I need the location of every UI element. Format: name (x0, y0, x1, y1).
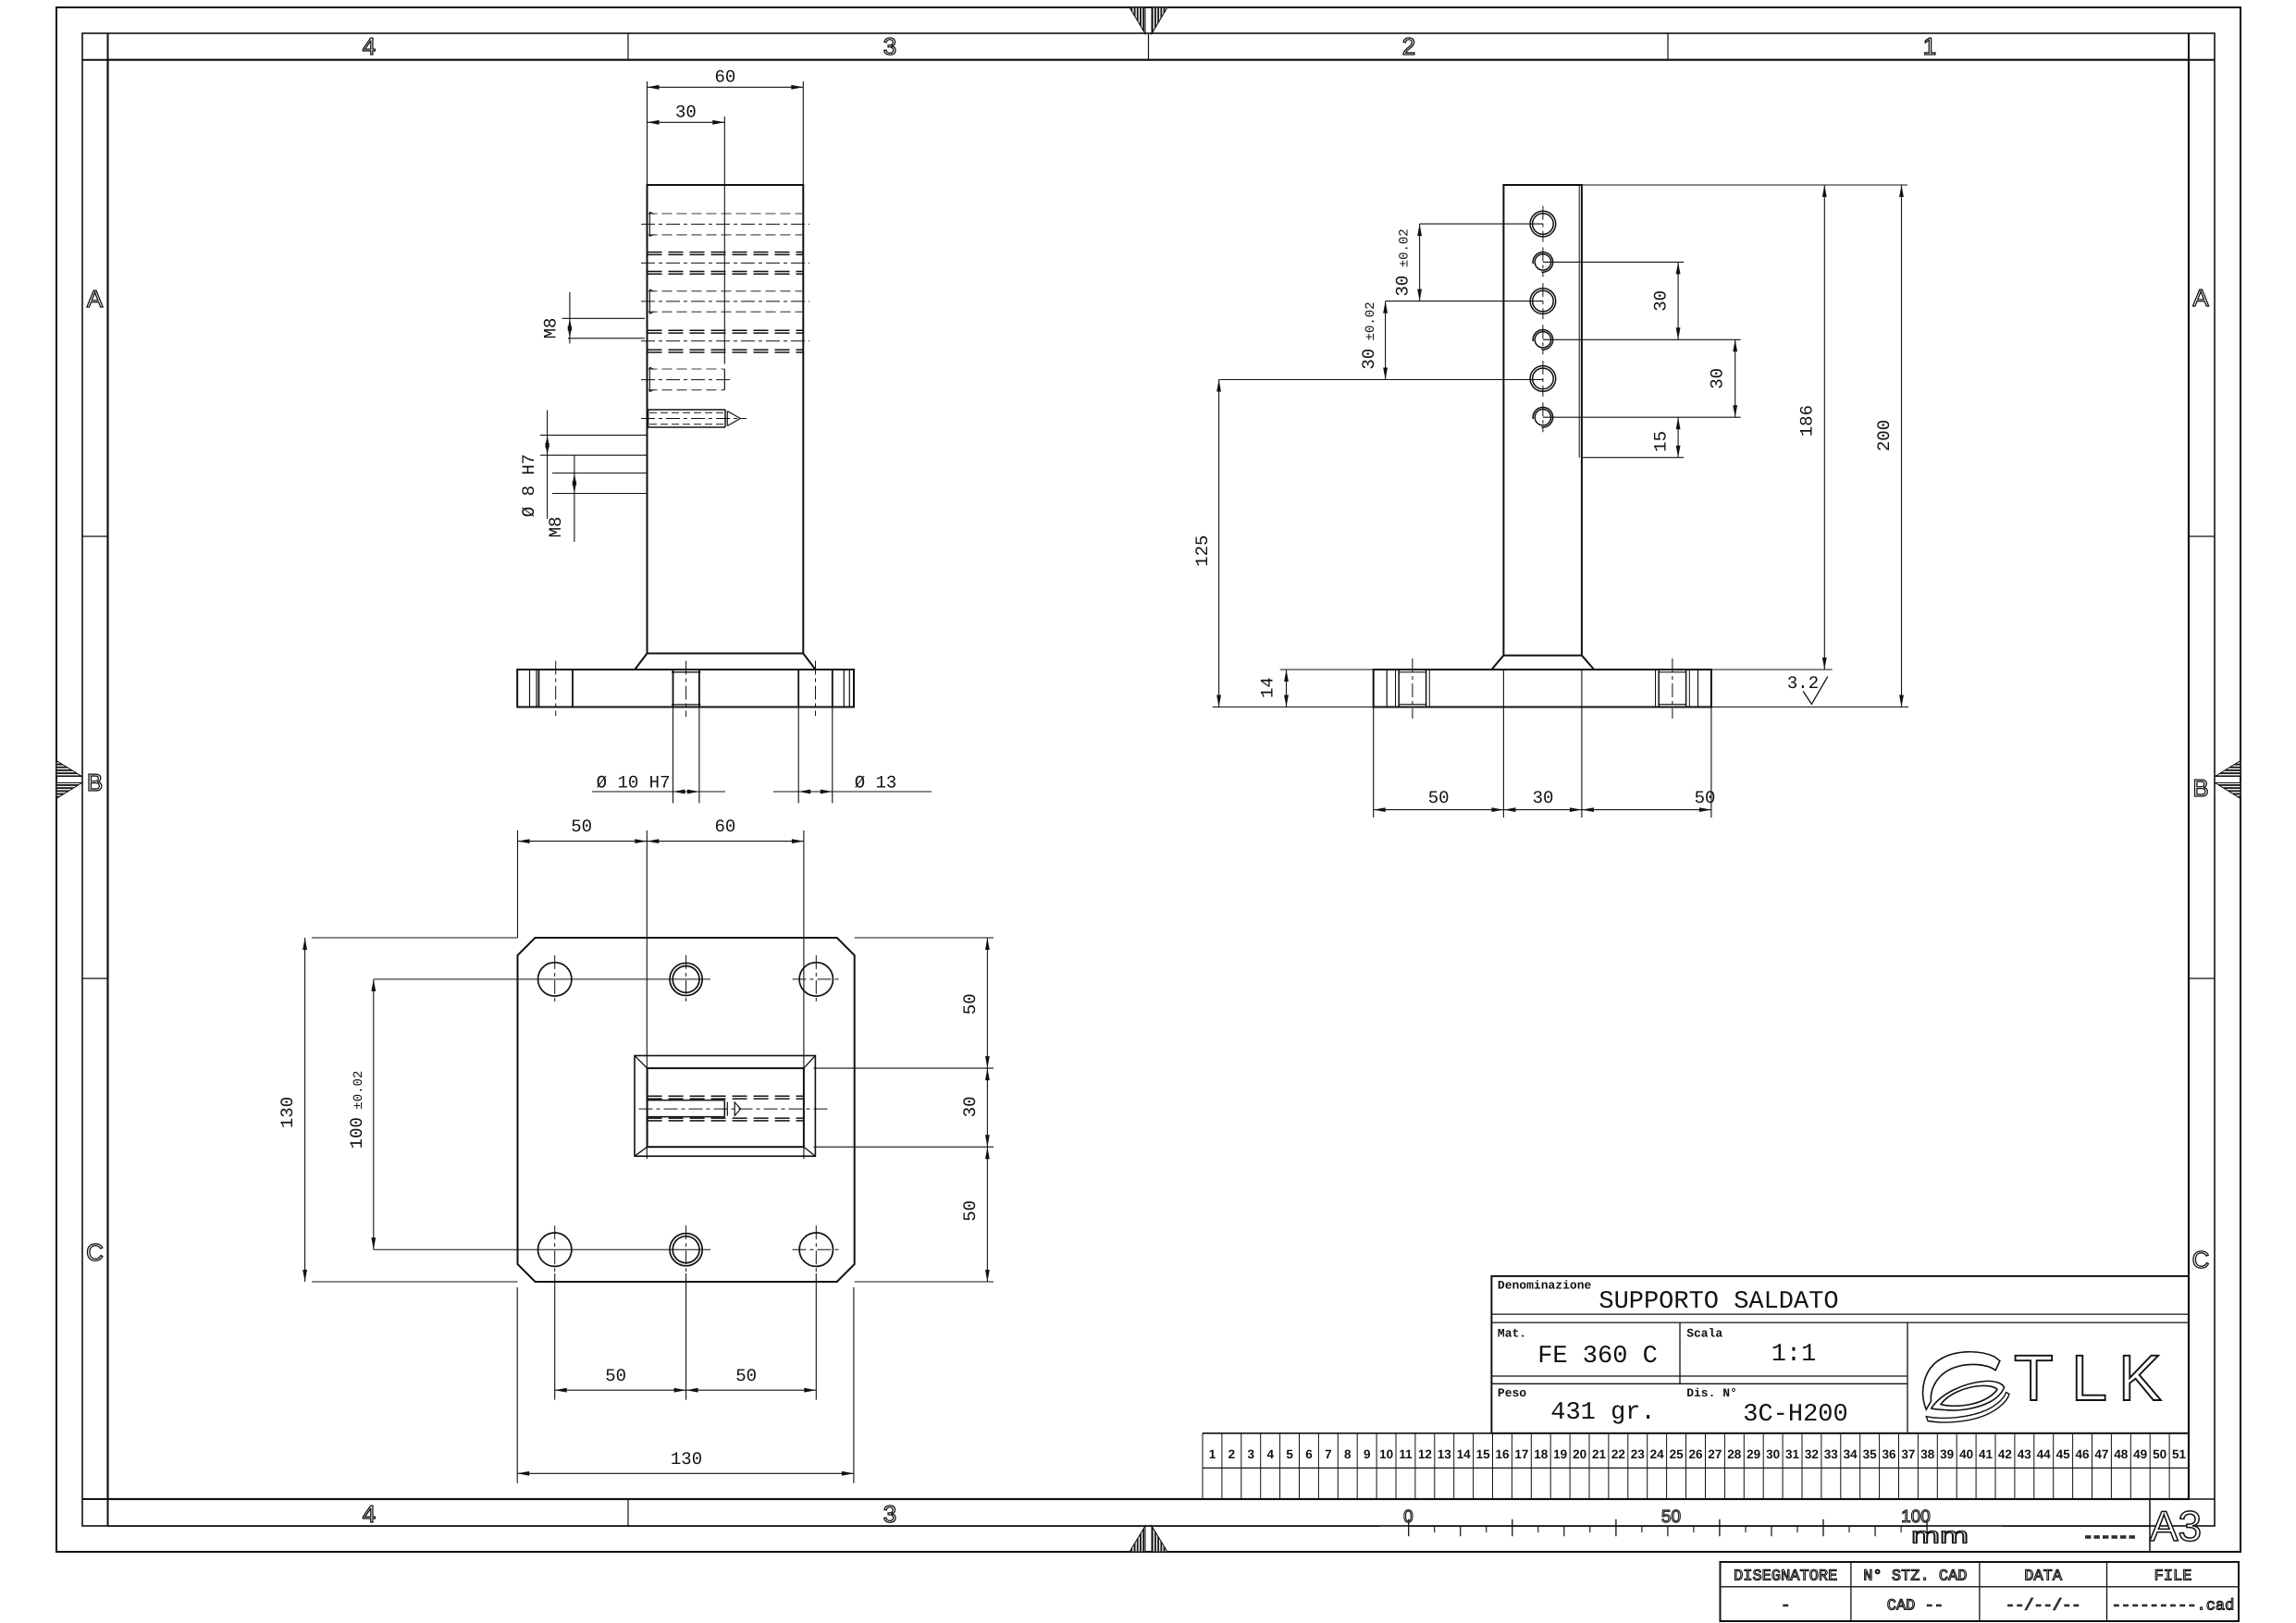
svg-text:C: C (2192, 1246, 2210, 1273)
dimension 186 (1583, 185, 1907, 670)
revision header DATA (2024, 1568, 2063, 1586)
svg-text:A3: A3 (2150, 1502, 2202, 1550)
A3 format box (2150, 1499, 2215, 1552)
title value FE 360 C (1537, 1343, 1658, 1371)
svg-text:30: 30 (1533, 788, 1554, 808)
title label Denominazione (1498, 1278, 1592, 1292)
svg-text:3: 3 (1248, 1447, 1255, 1461)
revision header FILE (2154, 1568, 2192, 1586)
svg-text:mm: mm (1911, 1524, 1969, 1549)
svg-text:50: 50 (960, 1200, 981, 1222)
label Ø 8 H7 with leaders (519, 411, 647, 519)
svg-text:50: 50 (2153, 1447, 2166, 1461)
svg-text:Mat.: Mat. (1498, 1327, 1526, 1341)
svg-text:1:1: 1:1 (1771, 1341, 1817, 1369)
svg-text:6: 6 (1305, 1447, 1313, 1461)
centering mark left (56, 761, 82, 799)
revision value CAD -- (1887, 1598, 1944, 1616)
side flange bolt hole left (Ø13/Ø10) (1396, 670, 1430, 707)
svg-text:130: 130 (671, 1449, 702, 1469)
hole H1 centerline (641, 223, 809, 225)
svg-text:N° STZ. CAD: N° STZ. CAD (1863, 1568, 1967, 1586)
svg-text:38: 38 (1920, 1447, 1935, 1461)
svg-text:37: 37 (1901, 1447, 1915, 1461)
svg-text:33: 33 (1824, 1447, 1839, 1461)
scale ruler labels (1403, 1507, 1931, 1527)
title block frame (1491, 1276, 2189, 1433)
plan dowel hole Ø10 H7 at (742,1351) (670, 1234, 702, 1266)
svg-text:16: 16 (1495, 1447, 1510, 1461)
svg-text:50: 50 (571, 817, 592, 837)
svg-text:25: 25 (1670, 1447, 1685, 1461)
svg-text:12: 12 (1418, 1447, 1432, 1461)
front flange hole Ø13 right (798, 670, 833, 707)
svg-text:Denominazione: Denominazione (1498, 1278, 1592, 1292)
plan bolt hole Ø13 at (600,1059) (538, 955, 572, 1003)
svg-text:48: 48 (2114, 1447, 2129, 1461)
svg-text:K: K (2118, 1342, 2162, 1414)
svg-text:44: 44 (2037, 1447, 2052, 1461)
zone labels bottom 4 3 (363, 1500, 896, 1528)
zone band column dividers (628, 33, 1668, 1526)
A3 label (2150, 1502, 2202, 1550)
svg-text:L: L (2071, 1342, 2107, 1414)
dimension 200 (1711, 185, 1908, 707)
set screw G1 body (648, 410, 728, 427)
dimension 50 30 50 (plan right) (814, 938, 994, 1282)
svg-text:A: A (87, 285, 104, 313)
hole H4 centerline (641, 340, 809, 342)
plan set screw thread hidden lines (648, 1096, 804, 1121)
dimension 14 (1258, 670, 1374, 707)
revision header DISEGNATORE (1734, 1568, 1837, 1586)
svg-text:200: 200 (1874, 420, 1895, 451)
svg-text:431 gr.: 431 gr. (1550, 1399, 1655, 1427)
svg-text:Ø 13: Ø 13 (855, 773, 897, 793)
front view weld fillet left (635, 654, 647, 670)
dimension 15 (1650, 417, 1680, 458)
svg-text:45: 45 (2056, 1447, 2071, 1461)
svg-text:SUPPORTO SALDATO: SUPPORTO SALDATO (1599, 1288, 1838, 1316)
svg-text:46: 46 (2075, 1447, 2090, 1461)
front flange hole Ø13 left centerline (555, 661, 557, 717)
svg-text:2: 2 (1402, 32, 1415, 60)
svg-text:41: 41 (1979, 1447, 1994, 1461)
svg-text:50: 50 (605, 1366, 626, 1386)
zone band bottom line segments (108, 1525, 2151, 1527)
hole H3 hidden lines (Ø8 through) (648, 289, 804, 314)
front flange left end chamfer lines (530, 670, 537, 707)
svg-text:130: 130 (278, 1097, 298, 1128)
hole H1 hidden lines (Ø8 through) (648, 212, 804, 237)
centering mark top (1129, 7, 1167, 34)
dimension 130 (plan left) (278, 938, 518, 1282)
title label Mat. (1498, 1327, 1526, 1341)
side hole S2 (M8 tapped) (1533, 247, 1553, 277)
svg-text:31: 31 (1785, 1447, 1800, 1461)
dimension 30 right (holes 2-4) (1650, 262, 1680, 339)
revision table dividers (1721, 1562, 2240, 1621)
svg-text:10: 10 (1379, 1447, 1393, 1461)
side view column body (1503, 185, 1582, 656)
zone labels left A B C (86, 285, 104, 1266)
svg-text:40: 40 (1959, 1447, 1973, 1461)
side flange bolt hole right centerline (1672, 658, 1673, 719)
svg-text:14: 14 (1258, 677, 1278, 698)
dimension 30 ±0.02 (holes 1-3) (1393, 224, 1423, 301)
dimension Ø 13 (773, 707, 932, 804)
svg-text:42: 42 (1998, 1447, 2012, 1461)
plan set screw cone point (734, 1102, 740, 1115)
svg-text:15: 15 (1650, 431, 1671, 452)
numbered filing strip digits 1-51 (1209, 1447, 2187, 1461)
title value 1:1 (1771, 1341, 1817, 1369)
svg-text:30: 30 (1650, 290, 1671, 312)
svg-text:50: 50 (735, 1366, 757, 1386)
scale ruler (1409, 1519, 1927, 1536)
svg-text:51: 51 (2172, 1447, 2187, 1461)
plan slot inner rect (column 60x30) (648, 1068, 804, 1147)
svg-text:11: 11 (1399, 1447, 1413, 1461)
svg-text:3: 3 (883, 1500, 896, 1528)
plan slot corner chamfer lines (635, 1056, 815, 1157)
title label Scala (1686, 1327, 1722, 1341)
title label Dis. N° (1686, 1386, 1737, 1400)
svg-text:0: 0 (1403, 1507, 1413, 1527)
svg-text:36: 36 (1882, 1447, 1896, 1461)
TLK logo text (2014, 1342, 2162, 1414)
svg-text:C: C (86, 1238, 104, 1266)
svg-text:4: 4 (1266, 1447, 1274, 1461)
side view flange (1374, 670, 1711, 707)
front view flange (517, 670, 854, 707)
svg-text:49: 49 (2133, 1447, 2147, 1461)
revision value dash (1781, 1598, 1790, 1616)
plan vertical crosshair Ø10 top (685, 955, 687, 1003)
svg-text:50: 50 (1695, 788, 1716, 808)
plan set screw centerline (639, 1108, 828, 1110)
svg-text:FILE: FILE (2154, 1568, 2192, 1586)
front flange hole Ø10 center (672, 670, 700, 707)
plan bolt hole Ø13 at (600,1351) (538, 1225, 572, 1273)
svg-text:30: 30 (960, 1096, 981, 1117)
svg-text:8: 8 (1344, 1447, 1352, 1461)
centering mark right (2216, 761, 2241, 799)
label M8 upper with leaders (541, 292, 646, 344)
svg-text:7: 7 (1325, 1447, 1332, 1461)
svg-text:39: 39 (1940, 1447, 1954, 1461)
side flange bolt hole right (Ø13/Ø10) (1656, 670, 1690, 707)
svg-text:B: B (2192, 774, 2208, 802)
plan view plate outline (518, 938, 855, 1282)
svg-text:---------.cad: ---------.cad (2112, 1598, 2235, 1616)
dimension 60 (front top) (648, 68, 804, 186)
revision table frame (1721, 1562, 2240, 1621)
svg-text:17: 17 (1514, 1447, 1528, 1461)
svg-text:13: 13 (1438, 1447, 1452, 1461)
svg-text:1: 1 (1923, 32, 1936, 60)
side hole S3 (Ø8 H7 countersunk) (1530, 283, 1556, 319)
svg-text:35: 35 (1863, 1447, 1878, 1461)
side flange end chamfer lines (1387, 670, 1697, 707)
svg-text:4: 4 (363, 32, 376, 60)
hole H5 centerline (641, 379, 732, 381)
svg-text:43: 43 (2018, 1447, 2032, 1461)
title label Peso (1498, 1386, 1526, 1400)
plan bolt hole Ø13 at (882,1351) (799, 1225, 833, 1273)
dimension 30 right (holes 4-6) (1707, 339, 1737, 417)
svg-text:18: 18 (1534, 1447, 1549, 1461)
svg-text:60: 60 (714, 68, 735, 88)
svg-text:Dis. N°: Dis. N° (1686, 1386, 1737, 1400)
svg-text:28: 28 (1727, 1447, 1742, 1461)
revision value date (2006, 1598, 2081, 1616)
numbered filing strip grid (1203, 1433, 2189, 1499)
front flange hole Ø10 centerline (685, 661, 687, 718)
plan hole row centerline bottom (374, 1248, 841, 1250)
svg-text:50: 50 (1428, 788, 1450, 808)
svg-text:29: 29 (1747, 1447, 1760, 1461)
revision header N STZ CAD (1863, 1568, 1967, 1586)
front view weld fillet right (803, 654, 815, 670)
svg-text:DATA: DATA (2024, 1568, 2063, 1586)
title value 3C-H200 (1743, 1401, 1847, 1429)
side hole S5 (Ø8 H7 countersunk) (1530, 361, 1556, 397)
svg-text:T: T (2014, 1342, 2054, 1414)
plan set screw body (648, 1100, 728, 1117)
plan bolt hole Ø13 at (882,1059) (799, 955, 833, 1003)
side hole S1 (Ø8 H7 countersunk) (1530, 206, 1556, 242)
side view weld fillet left (1491, 656, 1503, 670)
hole H3 centerline (641, 301, 809, 302)
svg-text:1: 1 (1209, 1447, 1216, 1461)
dimension 60 (plan top) (647, 817, 804, 1159)
svg-text:27: 27 (1708, 1447, 1722, 1461)
svg-text:34: 34 (1844, 1447, 1858, 1461)
side view column flat edge (1578, 185, 1580, 458)
dimension 50 30 50 (side bottom) (1374, 707, 1716, 818)
dimension 30 ±0.02 (holes 3-5) (1359, 301, 1388, 380)
svg-text:26: 26 (1688, 1447, 1703, 1461)
svg-text:50: 50 (960, 993, 981, 1014)
dimension 50 50 (plan bottom) (555, 1273, 817, 1400)
plan slot outer rect (weld outline) (635, 1056, 815, 1157)
svg-text:14: 14 (1457, 1447, 1472, 1461)
zone labels right A B C (2192, 284, 2210, 1273)
plan hole row centerline top (374, 978, 841, 980)
svg-text:2: 2 (1228, 1447, 1236, 1461)
svg-text:A: A (2192, 284, 2209, 312)
svg-text:9: 9 (1364, 1447, 1371, 1461)
hole H5 hidden lines (Ø8 blind depth 30) (648, 367, 725, 392)
svg-text:CAD --: CAD -- (1887, 1598, 1944, 1616)
svg-text:22: 22 (1611, 1447, 1625, 1461)
svg-text:30: 30 (1707, 368, 1727, 389)
dimension 30 (front top) (648, 103, 725, 364)
plan vertical crosshair Ø10 bottom (685, 1225, 687, 1273)
dimension 50 (plan top) (518, 817, 648, 1159)
set screw G1 cone point (727, 412, 740, 426)
trailing dashes (2085, 1535, 2135, 1539)
zone labels top 4 3 2 1 (363, 32, 1936, 60)
revision value file (2112, 1598, 2235, 1616)
svg-text:5: 5 (1286, 1447, 1293, 1461)
svg-text:FE 360 C: FE 360 C (1537, 1343, 1658, 1371)
label M8 lower with leaders (546, 455, 647, 542)
svg-text:4: 4 (363, 1500, 376, 1528)
centering mark bottom (1129, 1526, 1167, 1552)
svg-text:30: 30 (1766, 1447, 1780, 1461)
svg-text:20: 20 (1573, 1447, 1586, 1461)
front view column body (648, 185, 804, 654)
plan dowel hole Ø10 H7 at (742,1059) (670, 963, 702, 995)
zone band row dividers (82, 536, 2215, 978)
svg-text:Ø 8 H7: Ø 8 H7 (519, 454, 539, 517)
svg-text:Peso: Peso (1498, 1386, 1526, 1400)
svg-text:186: 186 (1797, 405, 1818, 436)
svg-text:DISEGNATORE: DISEGNATORE (1734, 1568, 1837, 1586)
svg-text:Ø 10 H7: Ø 10 H7 (597, 773, 671, 793)
svg-text:24: 24 (1650, 1447, 1665, 1461)
side flange bolt hole left centerline (1412, 658, 1413, 719)
svg-text:15: 15 (1476, 1447, 1491, 1461)
dimension 125 (1192, 380, 1374, 707)
svg-text:50: 50 (1661, 1507, 1681, 1527)
svg-text:3.2: 3.2 (1787, 673, 1819, 694)
side view weld fillet right (1582, 656, 1594, 670)
side hole leader lines (1219, 224, 1741, 458)
svg-text:M8: M8 (541, 318, 562, 339)
title value 431 gr. (1550, 1399, 1655, 1427)
svg-text:23: 23 (1631, 1447, 1646, 1461)
scale ruler mm label (1911, 1524, 1969, 1549)
front flange hole Ø13 right centerline (815, 661, 817, 717)
surface finish 3.2 symbol (1787, 673, 1828, 704)
front flange hole Ø13 left (538, 670, 573, 707)
TLK logo swirl (1923, 1352, 2009, 1422)
side view column edges through flange (1503, 670, 1582, 818)
svg-text:21: 21 (1592, 1447, 1607, 1461)
title block separators (1491, 1314, 2189, 1433)
dimension 130 (plan bottom) (517, 1287, 854, 1483)
svg-text:60: 60 (714, 817, 735, 837)
hole H2 hidden thread lines (M8) (648, 252, 804, 275)
svg-text:B: B (87, 768, 103, 796)
svg-text:Scala: Scala (1686, 1327, 1722, 1341)
svg-text:3C-H200: 3C-H200 (1743, 1401, 1847, 1429)
dimension 100 ±0.02 (plan left) (347, 979, 376, 1249)
svg-text:125: 125 (1192, 535, 1213, 567)
dimension Ø 10 H7 (592, 707, 725, 804)
svg-text:-: - (1781, 1598, 1790, 1616)
svg-text:30: 30 (675, 103, 697, 123)
svg-text:47: 47 (2094, 1447, 2108, 1461)
front flange right end chamfer lines (844, 670, 849, 707)
svg-text:19: 19 (1553, 1447, 1567, 1461)
side hole S6 (M8 tapped) (1533, 402, 1553, 432)
title value SUPPORTO SALDATO (1599, 1288, 1838, 1316)
set screw G1 centerline (641, 418, 747, 420)
svg-text:3: 3 (883, 32, 896, 60)
hole H4 hidden thread lines (M8) (648, 330, 804, 352)
svg-text:--/--/--: --/--/-- (2006, 1598, 2081, 1616)
side hole S4 (M8 tapped) (1533, 325, 1553, 354)
hole H2 centerline (641, 262, 809, 264)
svg-text:M8: M8 (546, 517, 566, 538)
svg-text:32: 32 (1805, 1447, 1819, 1461)
